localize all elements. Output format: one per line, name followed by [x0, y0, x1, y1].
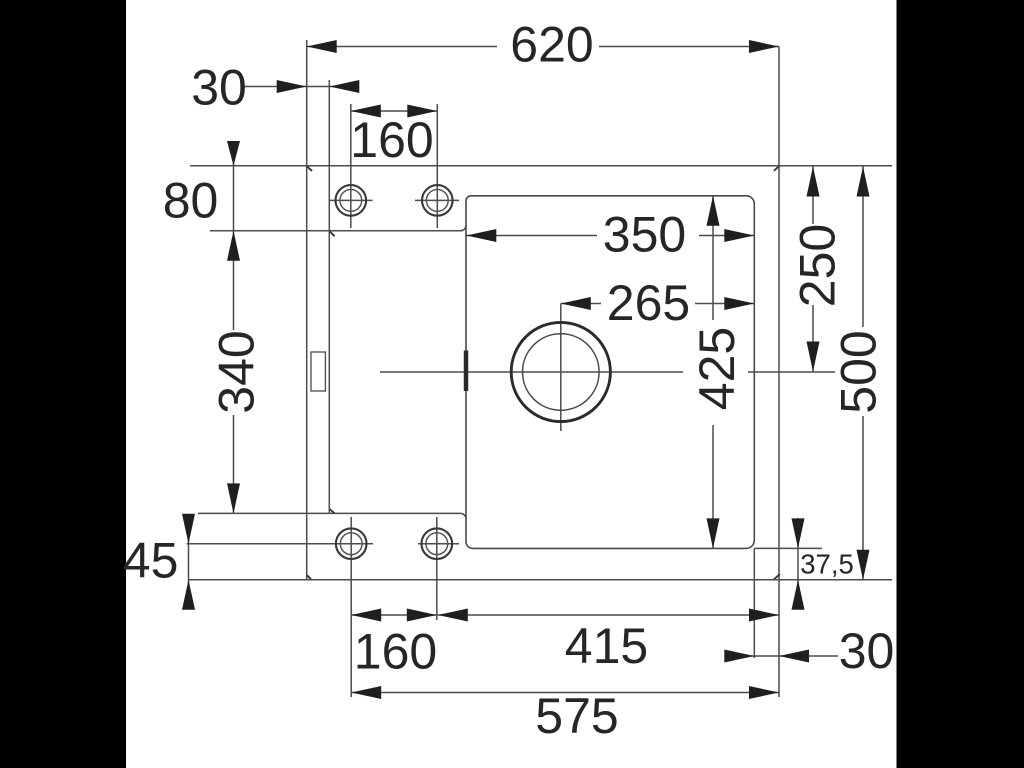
svg-text:340: 340 — [209, 330, 265, 413]
svg-text:250: 250 — [790, 224, 846, 307]
svg-text:500: 500 — [831, 330, 887, 413]
svg-text:30: 30 — [191, 60, 247, 116]
svg-text:265: 265 — [607, 275, 690, 331]
svg-text:415: 415 — [565, 618, 648, 674]
svg-text:350: 350 — [603, 207, 686, 263]
svg-text:160: 160 — [350, 112, 433, 168]
svg-text:37,5: 37,5 — [800, 549, 854, 580]
svg-text:30: 30 — [839, 623, 895, 679]
svg-text:45: 45 — [123, 533, 179, 589]
svg-text:575: 575 — [535, 688, 618, 744]
svg-text:425: 425 — [689, 327, 745, 410]
svg-text:160: 160 — [354, 624, 437, 680]
svg-text:80: 80 — [163, 173, 219, 229]
svg-text:620: 620 — [510, 17, 593, 73]
